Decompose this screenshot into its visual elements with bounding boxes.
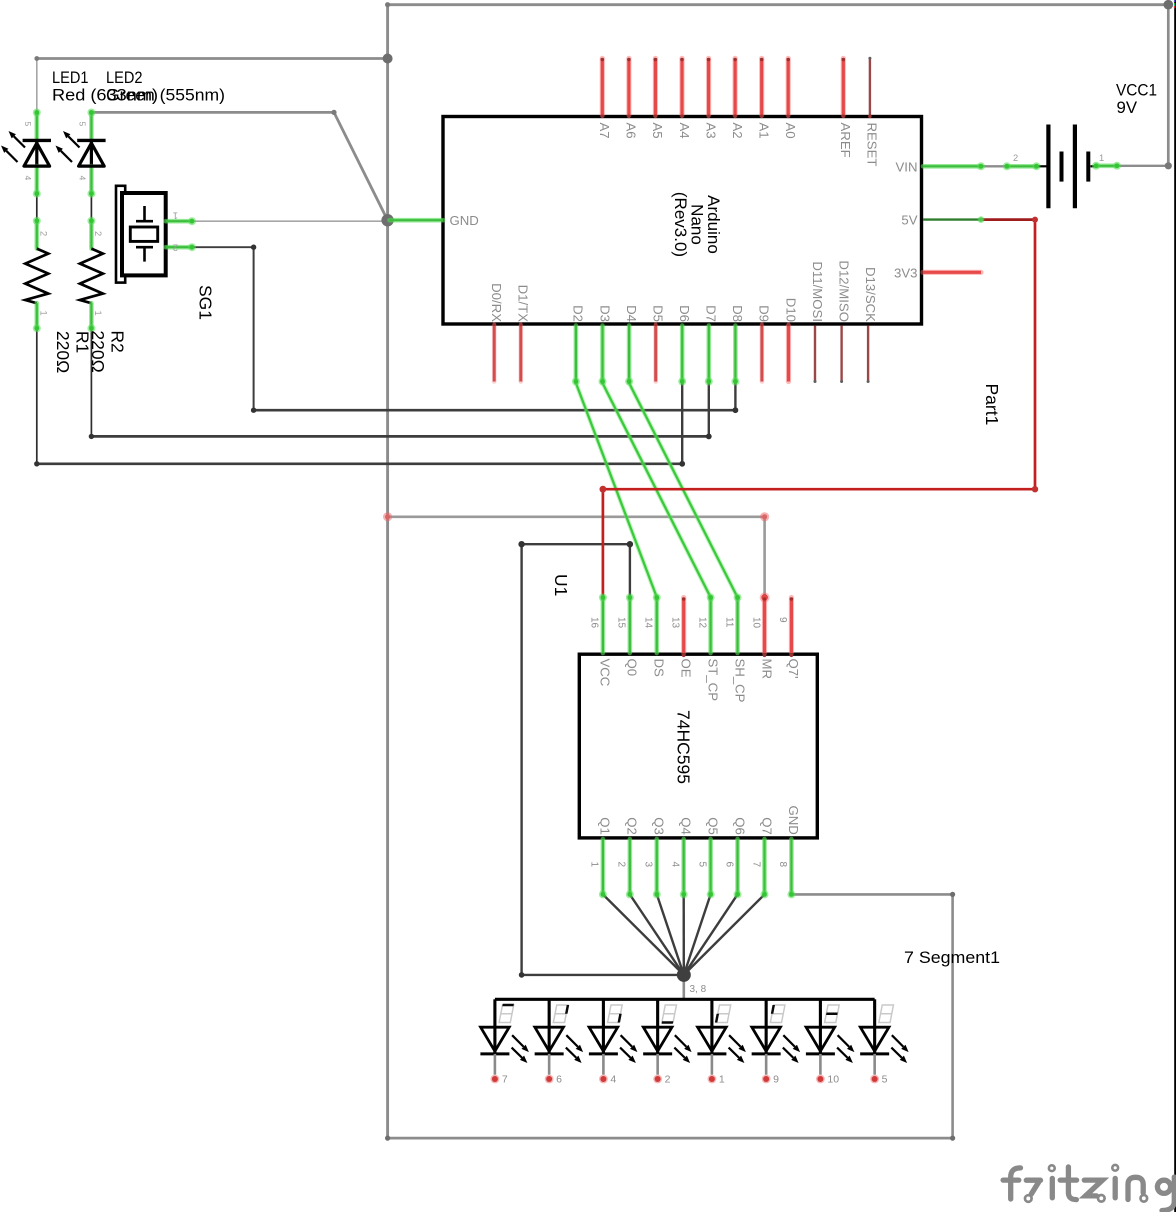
node GND top corner <box>385 2 390 7</box>
wire GND net: LED2 diagonal to GND junction <box>334 112 388 220</box>
svg-text:VCC1: VCC1 <box>1116 81 1157 100</box>
node D8 wire corner <box>733 407 739 413</box>
SG1 label <box>196 285 216 320</box>
arduino pin D6 <box>677 305 692 385</box>
arduino pin D5 <box>651 305 666 381</box>
svg-text:2: 2 <box>1013 153 1018 163</box>
svg-text:1: 1 <box>1099 153 1104 163</box>
74HC595 pin 13 OE <box>669 597 693 678</box>
wire GND net: main vertical bus <box>386 5 389 1138</box>
74HC595 pin 15 Q0 <box>616 594 640 677</box>
IC U1 74HC595 body <box>579 654 817 838</box>
battery VCC1 9V <box>1037 125 1097 209</box>
svg-text:GND: GND <box>786 805 801 834</box>
svg-text:7: 7 <box>502 1074 508 1086</box>
arduino pin D4 <box>624 305 639 385</box>
7seg LED segment unit pin 2 <box>643 999 691 1085</box>
junction top right corner <box>1164 0 1174 10</box>
svg-text:A2: A2 <box>730 123 745 139</box>
svg-text:Green (555nm): Green (555nm) <box>106 86 225 105</box>
svg-text:3V3: 3V3 <box>894 265 917 280</box>
node LED2 top bend <box>89 110 93 114</box>
wire LED2 to R2 link <box>90 194 92 221</box>
svg-text:4: 4 <box>610 1074 616 1086</box>
arduino pin A3 <box>703 58 718 139</box>
node Q0 wire corner right <box>627 541 633 547</box>
7seg LED segment unit pin 5 <box>860 999 908 1085</box>
7seg LED segment unit pin 10 <box>806 999 855 1085</box>
svg-text:5: 5 <box>696 862 707 868</box>
svg-text:R2: R2 <box>108 330 128 352</box>
arduino pin A4 <box>677 58 692 139</box>
svg-text:D9: D9 <box>757 305 772 322</box>
wire Q3 fan to common node <box>657 894 684 975</box>
wire R2 to D7 vertical (thin) <box>90 328 92 436</box>
LED1 red LED symbol <box>1 109 51 198</box>
wire R1 to D6 vertical (thin) <box>36 328 38 464</box>
junction GND top-left <box>383 54 393 64</box>
Part1 label <box>982 384 1002 426</box>
svg-text:MR: MR <box>759 659 774 680</box>
wire Q0 riser <box>629 544 631 597</box>
wire Q0 net bottom horizontal <box>522 974 684 976</box>
svg-text:D11/MOSI: D11/MOSI <box>810 261 825 322</box>
arduino pin A7 <box>597 58 612 139</box>
arduino pin A5 <box>650 58 665 139</box>
arduino pin D0/RX <box>489 283 504 381</box>
wire D4 to SH_CP diagonal <box>629 383 738 598</box>
arduino pin A1 <box>757 58 772 139</box>
resistor R1 value label <box>53 331 93 373</box>
wire SG1 pin1 to GND junction (thin) <box>192 220 388 222</box>
wire Q0 net left vertical <box>520 544 522 975</box>
arduino pin D11/MOSI <box>810 261 825 383</box>
svg-text:6: 6 <box>556 1074 562 1086</box>
svg-text:2: 2 <box>93 231 103 236</box>
svg-text:220Ω: 220Ω <box>53 331 73 373</box>
74HC595 pin 4 Q4 <box>669 817 693 898</box>
arduino pin D10 <box>783 298 798 382</box>
7seg common pins 3,8 label <box>690 984 707 995</box>
junction battery corner <box>1165 162 1172 169</box>
wire R1 to D6 riser <box>681 382 683 464</box>
wire Q7 fan to common node <box>684 894 765 975</box>
svg-text:Q5: Q5 <box>705 817 720 835</box>
svg-text:Q6: Q6 <box>732 817 747 835</box>
wire Q0 horizontal <box>522 543 630 545</box>
battery pin 2 <box>1003 153 1041 170</box>
wire GND net: right vertical to battery <box>1167 5 1170 166</box>
svg-text:15: 15 <box>616 617 627 629</box>
svg-text:SG1: SG1 <box>196 285 216 320</box>
svg-text:AREF: AREF <box>838 123 853 158</box>
svg-text:D5: D5 <box>651 305 666 322</box>
svg-text:LED2: LED2 <box>106 68 143 87</box>
svg-text:Q0: Q0 <box>625 659 640 677</box>
svg-text:1: 1 <box>93 311 103 316</box>
arduino pin D8 <box>730 305 745 385</box>
arduino pin A2 <box>730 58 745 139</box>
svg-text:4: 4 <box>23 176 33 181</box>
node LED2 wire bend <box>331 110 336 115</box>
wire 5V net drop to VCC <box>602 489 605 597</box>
wire MR net horizontal <box>388 515 765 518</box>
svg-text:D0/RX: D0/RX <box>489 283 504 322</box>
svg-text:A0: A0 <box>783 123 798 139</box>
svg-text:9: 9 <box>773 1074 779 1086</box>
svg-text:2: 2 <box>665 1074 671 1086</box>
arduino pin RESET <box>865 57 880 167</box>
wire R2 to D7 riser <box>708 382 710 437</box>
svg-text:A6: A6 <box>624 123 639 139</box>
74HC595 pin 5 Q5 <box>696 817 720 898</box>
svg-text:GND: GND <box>450 213 479 228</box>
svg-text:5: 5 <box>882 1074 888 1086</box>
7seg LED segment unit pin 4 <box>589 999 638 1085</box>
7seg LED segment unit pin 9 <box>752 999 800 1085</box>
svg-text:14: 14 <box>643 617 654 629</box>
svg-text:3, 8: 3, 8 <box>690 984 707 995</box>
svg-text:VCC: VCC <box>598 659 613 687</box>
wire D3 to ST_CP diagonal <box>603 383 711 598</box>
wire 5V net right vertical <box>1034 220 1037 490</box>
wire Q1 fan to common node <box>603 894 684 975</box>
svg-text:Q1: Q1 <box>598 817 613 835</box>
node LED1 top bend <box>34 56 39 61</box>
svg-text:DS: DS <box>652 659 667 678</box>
wire SG1 to D8 riser <box>734 382 736 411</box>
svg-text:13: 13 <box>669 617 680 629</box>
LED2 green LED symbol <box>56 109 106 198</box>
svg-text:10: 10 <box>750 617 761 629</box>
svg-text:9V: 9V <box>1117 98 1138 117</box>
arduino pin D13/SCK <box>863 267 878 383</box>
wire D2 to DS diagonal <box>576 383 657 598</box>
svg-text:220Ω: 220Ω <box>88 330 108 372</box>
svg-text:LED1: LED1 <box>52 68 89 87</box>
svg-text:Part1: Part1 <box>982 384 1002 426</box>
svg-text:D2: D2 <box>571 305 586 322</box>
svg-text:2: 2 <box>173 243 178 253</box>
node D6 wire corner <box>679 461 685 467</box>
wire Q5 fan to common node <box>684 894 711 975</box>
wire battery pin1 to corner <box>1117 165 1168 167</box>
74HC595 pin 6 Q6 <box>723 817 747 898</box>
7 Segment1 label <box>904 948 1000 967</box>
svg-text:D6: D6 <box>677 305 692 322</box>
svg-text:OE: OE <box>678 659 693 678</box>
node 5V corner bottom <box>1032 486 1038 492</box>
svg-text:D10: D10 <box>783 298 798 322</box>
node Q0 net bottom corner <box>519 972 525 978</box>
resistor R2 <box>80 217 103 332</box>
svg-text:9: 9 <box>777 617 788 623</box>
wire LED1 top vertical (thin) <box>36 59 38 113</box>
74HC595 pin 10 MR <box>750 597 774 679</box>
op-amp U: Arduino Nano module body <box>443 117 922 325</box>
wire SG1 pin2 vertical <box>253 247 255 410</box>
arduino pin A0 <box>783 58 798 139</box>
svg-text:A3: A3 <box>703 123 718 139</box>
LED2 label <box>106 68 225 105</box>
svg-text:10: 10 <box>827 1074 839 1086</box>
svg-text:Q2: Q2 <box>625 817 640 835</box>
svg-text:5V: 5V <box>901 213 917 228</box>
node SG1 wire lower corner <box>251 408 256 413</box>
wire R2 to D7 horizontal <box>91 435 708 438</box>
wire 7seg GND right vertical <box>951 894 954 1138</box>
7seg anode bus <box>495 998 875 1001</box>
node bottom right corner <box>950 1136 955 1141</box>
svg-text:11: 11 <box>723 617 734 628</box>
wire GND net: top horizontal run <box>388 3 1169 6</box>
svg-text:D7: D7 <box>704 305 719 322</box>
svg-text:(Rev3.0): (Rev3.0) <box>671 192 690 257</box>
LED1 label <box>52 68 158 105</box>
arduino pin 5V <box>901 213 984 228</box>
arduino pin D7 <box>704 305 719 385</box>
svg-text:A5: A5 <box>650 123 665 139</box>
svg-text:7: 7 <box>750 862 761 868</box>
svg-text:6: 6 <box>723 862 734 868</box>
wire 5V net long horizontal <box>603 488 1035 491</box>
arduino pin VIN <box>896 159 985 174</box>
svg-text:D8: D8 <box>730 305 745 322</box>
svg-text:1: 1 <box>589 862 600 868</box>
node MR net right bend <box>760 512 769 521</box>
svg-text:5: 5 <box>77 122 87 127</box>
svg-text:Q7: Q7 <box>759 817 774 835</box>
svg-text:12: 12 <box>696 617 707 629</box>
svg-text:U1: U1 <box>551 574 571 596</box>
wire 7seg GND horizontal <box>792 893 953 896</box>
svg-text:16: 16 <box>589 617 600 629</box>
74HC595 pin 3 Q3 <box>643 817 667 898</box>
74HC595 pin 12 ST_CP <box>696 594 720 702</box>
U1 label <box>551 574 571 596</box>
svg-text:A4: A4 <box>677 123 692 139</box>
wire 5V net horizontal from Arduino <box>981 218 1035 221</box>
svg-text:1: 1 <box>38 311 48 316</box>
74HC595 pin 14 DS <box>643 594 667 678</box>
resistor R1 <box>25 217 48 332</box>
svg-text:8: 8 <box>777 862 788 868</box>
node bottom left corner <box>385 1136 390 1141</box>
battery pin 1 <box>1092 153 1121 170</box>
svg-text:D3: D3 <box>597 305 612 322</box>
svg-text:D1/TX: D1/TX <box>516 285 531 323</box>
svg-text:2: 2 <box>38 231 48 236</box>
arduino pin 3V3 <box>894 265 981 280</box>
svg-text:2: 2 <box>616 862 627 868</box>
wire Q6 fan to common node <box>684 894 738 975</box>
junction GND at Arduino <box>381 214 393 226</box>
svg-text:5: 5 <box>23 122 33 127</box>
svg-text:A7: A7 <box>597 123 612 139</box>
arduino pin D1/TX <box>516 285 531 382</box>
svg-text:ST_CP: ST_CP <box>705 659 720 702</box>
svg-text:D12/MISO: D12/MISO <box>836 260 851 322</box>
svg-text:74HC595: 74HC595 <box>674 710 694 784</box>
node R1 wire corner <box>34 461 39 466</box>
svg-text:SH_CP: SH_CP <box>732 659 747 703</box>
wire VIN to battery pin2 <box>981 165 1007 167</box>
74HC595 pin 16 VCC <box>589 594 613 687</box>
node SG1 wire corner <box>251 245 256 250</box>
VCC1 label <box>1116 81 1157 118</box>
wire Q2 fan to common node <box>630 894 684 975</box>
arduino pin A6 <box>624 58 639 139</box>
node MR net left endpoint <box>383 512 392 521</box>
74HC595 pin 2 Q2 <box>616 817 640 898</box>
arduino pin D3 <box>597 305 612 385</box>
node MR pin endpoint <box>760 593 770 603</box>
arduino pin AREF <box>838 58 853 158</box>
74HC595 pin 1 Q1 <box>589 817 613 898</box>
7seg LED segment unit pin 6 <box>535 999 583 1085</box>
wire LED1 to R1 link <box>36 194 38 221</box>
wire R1 to D6 horizontal <box>37 462 682 465</box>
arduino pin D2 <box>571 305 586 385</box>
74HC595 pin 8 GND <box>777 805 801 898</box>
node 7seg gnd corner <box>950 892 955 897</box>
svg-text:4: 4 <box>669 862 680 868</box>
wire GND net: LED1 top horizontal <box>37 57 388 60</box>
svg-text:Q7': Q7' <box>786 659 801 679</box>
svg-text:1: 1 <box>173 211 178 221</box>
74HC595 pin 7 Q7 <box>750 817 774 898</box>
node 5V corner left <box>600 486 607 493</box>
wire Q4 fan to common node <box>683 894 685 975</box>
wire GND net: bottom horizontal <box>388 1137 953 1140</box>
7seg LED segment unit pin 7 <box>480 999 529 1085</box>
svg-text:3: 3 <box>643 862 654 868</box>
wire SG1 pin2 horizontal link <box>192 246 254 248</box>
svg-text:VIN: VIN <box>896 159 918 174</box>
svg-text:D4: D4 <box>624 305 639 322</box>
node R2 wire corner <box>89 434 94 439</box>
7seg LED segment unit pin 1 <box>697 999 746 1085</box>
svg-text:A1: A1 <box>757 123 772 139</box>
svg-text:1: 1 <box>719 1074 725 1086</box>
wire GND net: LED2 top horizontal <box>91 111 334 114</box>
node D7 wire corner <box>706 434 712 440</box>
piezo speaker SG1 <box>116 186 196 283</box>
node 7seg common junction <box>677 968 691 982</box>
svg-text:Q4: Q4 <box>678 817 693 835</box>
svg-text:7 Segment1: 7 Segment1 <box>904 948 1000 967</box>
svg-text:RESET: RESET <box>865 123 880 167</box>
wire SG1 to D8 horizontal <box>254 409 736 412</box>
74HC595 pin 11 SH_CP <box>723 594 747 703</box>
fritzing watermark <box>1003 1165 1174 1211</box>
arduino pin D12/MISO <box>836 260 851 383</box>
wire MR net vertical <box>763 517 766 598</box>
node 5V corner right <box>1032 217 1038 223</box>
arduino pin GND <box>390 213 479 228</box>
74HC595 pin 9 Q7' <box>777 597 801 678</box>
resistor R2 value label <box>88 330 128 372</box>
wire 7seg common stub <box>682 975 685 999</box>
svg-text:D13/SCK: D13/SCK <box>863 267 878 322</box>
svg-text:Q3: Q3 <box>652 817 667 835</box>
node Q0 wire corner left <box>518 541 524 547</box>
arduino pin D9 <box>757 305 772 381</box>
svg-text:4: 4 <box>77 176 87 181</box>
